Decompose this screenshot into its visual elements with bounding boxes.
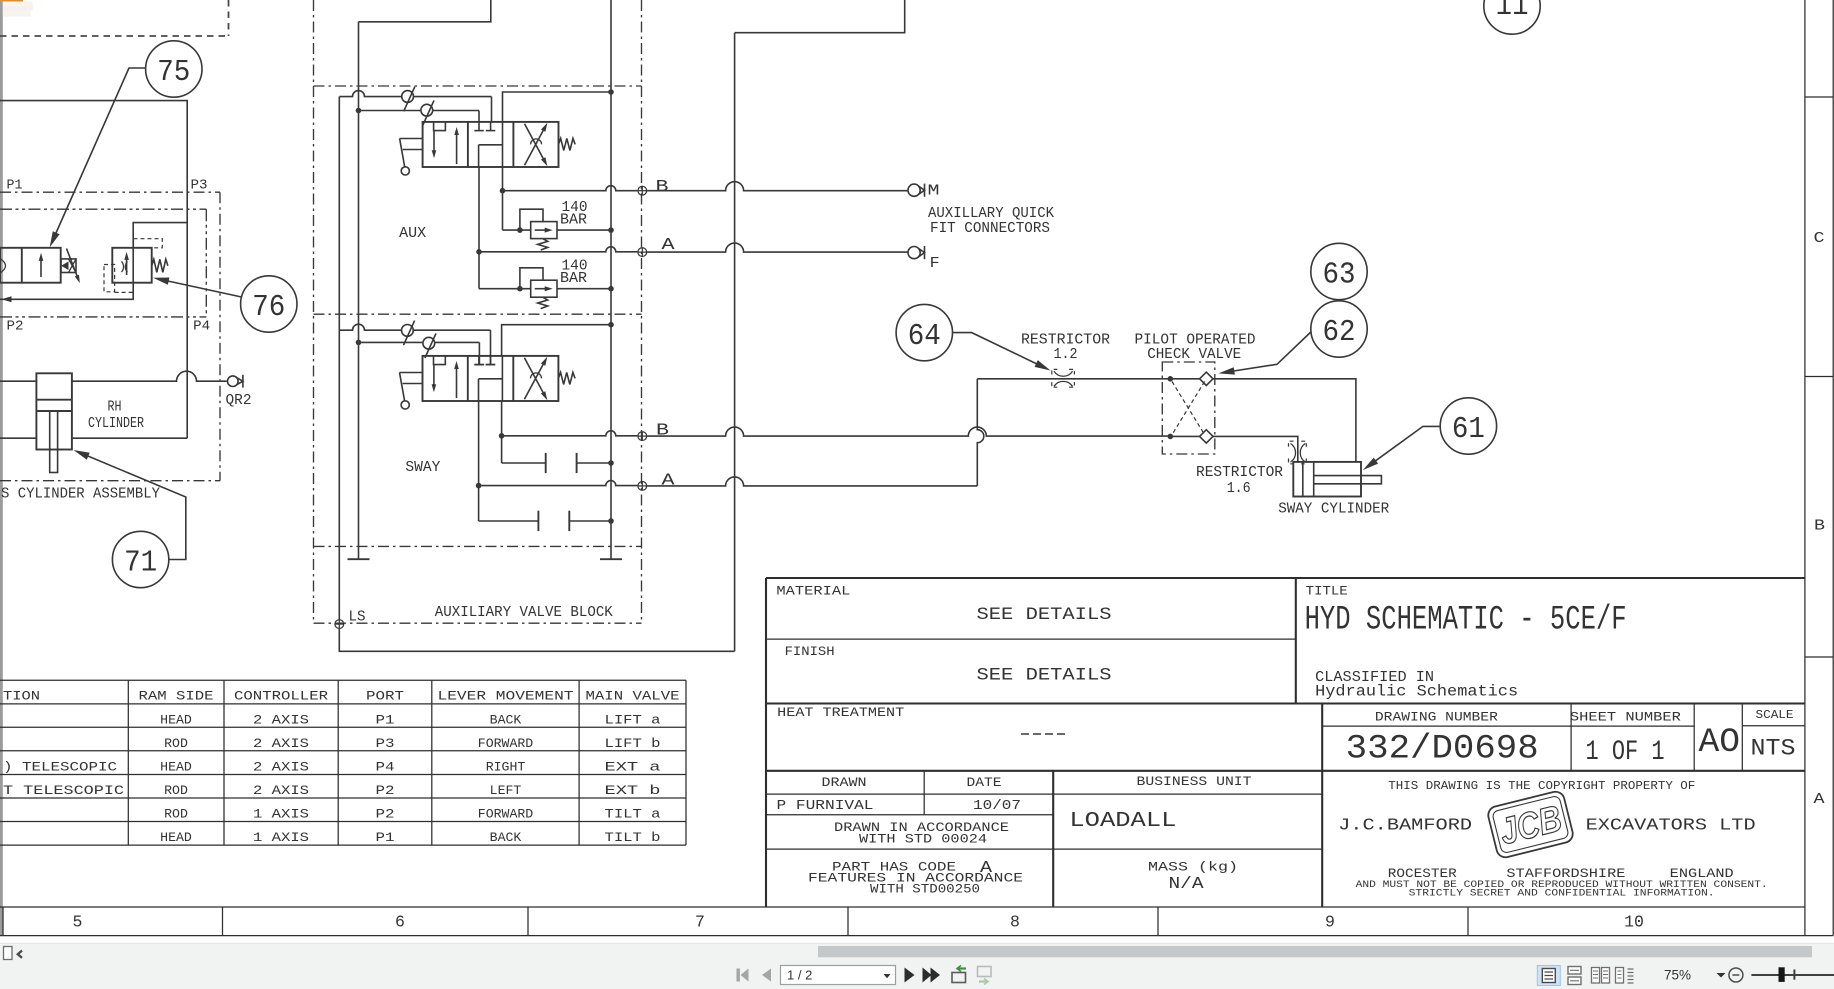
svg-text:TION: TION (3, 689, 40, 704)
solenoid valve V75 (0, 248, 80, 283)
svg-text:DRAWING NUMBER: DRAWING NUMBER (1375, 711, 1499, 725)
page thumbnail icon (4, 947, 13, 960)
svg-text:2 AXIS: 2 AXIS (253, 760, 309, 775)
svg-text:WITH STD00250: WITH STD00250 (870, 883, 980, 897)
svg-text:HEAD: HEAD (160, 713, 192, 728)
text HYD SCHEMATIC - 5CE/F (1305, 602, 1627, 640)
svg-text:SHEET NUMBER: SHEET NUMBER (1570, 711, 1682, 725)
svg-text:BACK: BACK (490, 713, 522, 728)
svg-text:61: 61 (1452, 412, 1485, 447)
svg-text:SEE DETAILS: SEE DETAILS (977, 666, 1112, 686)
svg-text:THIS DRAWING IS THE COPYRIGHT: THIS DRAWING IS THE COPYRIGHT PROPERTY O… (1388, 779, 1695, 793)
balloon 11 partial (1484, 0, 1540, 34)
svg-text:2 AXIS: 2 AXIS (253, 783, 309, 798)
svg-text:TILT b: TILT b (605, 830, 661, 845)
label AUXILIARY VALVE BLOCK (435, 605, 613, 621)
svg-text:LS: LS (349, 609, 366, 626)
svg-text:SWAY CYLINDER: SWAY CYLINDER (1278, 502, 1389, 518)
LS port connector (335, 620, 344, 629)
svg-text:10: 10 (1624, 913, 1644, 932)
faint ui remnant top-left (3, 2, 33, 7)
leader 76 (153, 278, 242, 298)
svg-text:) TELESCOPIC: ) TELESCOPIC (3, 760, 117, 775)
label A2 (662, 472, 676, 491)
label S CYLINDER ASSEMBLY (1, 487, 160, 503)
wire LS return bottom (339, 629, 734, 652)
label DRAWING NUMBER (1375, 711, 1499, 725)
RH cylinder (36, 373, 72, 472)
svg-text:P3: P3 (191, 178, 208, 194)
last page button (923, 968, 941, 983)
svg-text:AUXILIARY VALVE BLOCK: AUXILIARY VALVE BLOCK (435, 605, 613, 621)
leader 64 (952, 333, 1050, 371)
text NTS (1751, 736, 1796, 763)
svg-text:6: 6 (395, 913, 405, 932)
svg-text:1.6: 1.6 (1227, 481, 1251, 497)
wire check valve to cylinder rod end (1213, 379, 1356, 462)
browser orange sliver top-left (0, 0, 23, 2)
svg-text:BUSINESS UNIT: BUSINESS UNIT (1137, 775, 1253, 789)
label SCALE (1756, 708, 1794, 722)
svg-text:BAR: BAR (560, 213, 587, 229)
svg-text:P3: P3 (376, 736, 395, 751)
svg-text:P2: P2 (7, 319, 24, 335)
svg-text:QR2: QR2 (226, 393, 252, 409)
leader 75 (50, 68, 146, 247)
svg-text:1 AXIS: 1 AXIS (253, 807, 309, 822)
svg-text:HYD SCHEMATIC - 5CE/F: HYD SCHEMATIC - 5CE/F (1305, 602, 1627, 640)
wire SWAY port A riser (476, 401, 482, 521)
svg-text:T TELESCOPIC: T TELESCOPIC (3, 783, 124, 798)
svg-text:11: 11 (1496, 0, 1529, 24)
svg-text:B: B (656, 178, 669, 197)
svg-text:2 AXIS: 2 AXIS (253, 736, 309, 751)
left gray edge strip (0, 2, 3, 936)
prev page button (762, 969, 771, 982)
svg-text:RESTRICTOR: RESTRICTOR (1021, 332, 1110, 348)
wire SWAY pilot a (339, 324, 495, 364)
wire left box outline (0, 101, 187, 439)
label MASS kg (1148, 860, 1238, 874)
svg-text:FORWARD: FORWARD (478, 807, 533, 822)
balloon 71 (112, 531, 168, 587)
svg-text:ROD: ROD (164, 807, 188, 822)
port connector B2 (638, 432, 647, 441)
svg-text:AUX: AUX (399, 225, 426, 242)
valve block boundary dash-dot (314, 0, 642, 623)
svg-text:P2: P2 (376, 783, 395, 798)
text EXCAVATORS LTD (1586, 816, 1756, 835)
label SWAY (405, 459, 440, 476)
balloon 62 (1311, 301, 1367, 357)
pressure compensator V76 (104, 239, 168, 293)
wire compensator drain (0, 283, 133, 303)
svg-text:7: 7 (695, 913, 705, 932)
label RESTRICTOR 1.6 (1196, 465, 1283, 497)
svg-text:P4: P4 (193, 319, 210, 335)
svg-text:MAIN VALVE: MAIN VALVE (586, 689, 680, 704)
label P4 (193, 319, 210, 335)
svg-text:EXT b: EXT b (605, 783, 661, 798)
table rows text (3, 713, 661, 846)
balloon 61 (1440, 398, 1496, 454)
label SWAY CYLINDER (1278, 502, 1389, 518)
text 332/D0698 (1346, 730, 1539, 768)
svg-text:STRICTLY SECRET AND CONFIDENTI: STRICTLY SECRET AND CONFIDENTIAL INFORMA… (1409, 888, 1715, 899)
svg-text:1.2: 1.2 (1054, 347, 1078, 363)
label HEAT TREATMENT (777, 706, 905, 720)
svg-text:N/A: N/A (1169, 874, 1204, 893)
wire carry-over top elbow (735, 0, 905, 33)
svg-text:71: 71 (124, 546, 157, 581)
label RH CYLINDER (88, 399, 144, 433)
svg-text:62: 62 (1323, 315, 1356, 350)
wire P riser to AUX (338, 97, 340, 620)
port connector A2 (638, 482, 647, 491)
text SEE DETAILS finish (977, 666, 1112, 686)
svg-text:P1: P1 (376, 713, 395, 728)
svg-text:WITH STD 00024: WITH STD 00024 (859, 832, 987, 846)
directional valve SWAY (400, 356, 576, 409)
svg-text:J.C.BAMFORD: J.C.BAMFORD (1338, 816, 1472, 835)
wire SWAY A line (479, 481, 638, 486)
wire B2 into valve (1170, 435, 1199, 437)
restrictor 1.2 (1052, 369, 1075, 387)
leader 61 (1363, 426, 1440, 470)
wire carry-over vertical (734, 33, 736, 652)
svg-text:PILOT OPERATED: PILOT OPERATED (1135, 332, 1256, 348)
label M (928, 183, 940, 200)
label B1 (656, 178, 669, 197)
text 10/07 (973, 798, 1021, 814)
collapse chevron (18, 951, 22, 958)
connector M (908, 184, 925, 197)
text PART HAS CODE A (808, 859, 1023, 897)
text LOADALL (1069, 810, 1176, 833)
svg-text:RAM SIDE: RAM SIDE (139, 689, 214, 704)
svg-text:8: 8 (1010, 913, 1020, 932)
svg-text:DATE: DATE (967, 776, 1002, 790)
svg-text:MATERIAL: MATERIAL (776, 585, 850, 599)
svg-text:LEVER MOVEMENT: LEVER MOVEMENT (438, 689, 574, 704)
svg-text:B: B (656, 422, 669, 441)
text N/A (1169, 874, 1204, 893)
label F (930, 255, 940, 272)
svg-text:FINISH: FINISH (785, 645, 835, 659)
svg-text:S CYLINDER ASSEMBLY: S CYLINDER ASSEMBLY (1, 487, 160, 503)
text P FURNIVAL (777, 798, 874, 814)
check valve AUX b (421, 100, 434, 125)
svg-text:LIFT b: LIFT b (605, 736, 661, 751)
balloon 64 (896, 304, 952, 360)
wire AUX A line (479, 247, 637, 292)
label AUX (399, 225, 426, 242)
svg-text:63: 63 (1323, 258, 1356, 293)
label SHEET NUMBER (1570, 711, 1682, 725)
check valve AUX a (402, 87, 415, 112)
gap coupling B (502, 453, 614, 473)
port connector B1 (638, 186, 647, 195)
svg-text:HEAT TREATMENT: HEAT TREATMENT (777, 706, 905, 720)
text J.C.BAMFORD (1338, 816, 1472, 835)
wire pump line P (358, 22, 360, 559)
bottom border strip (0, 907, 1833, 936)
label TITLE (1306, 585, 1348, 599)
label A1 (662, 236, 676, 255)
label MATERIAL (776, 585, 850, 599)
svg-text:ROD: ROD (164, 736, 188, 751)
wire AUX tank link (503, 89, 614, 122)
svg-text:TITLE: TITLE (1306, 585, 1348, 599)
svg-text:LOADALL: LOADALL (1069, 810, 1176, 833)
wire SWAY port B riser (499, 401, 505, 463)
text copyright notice (1356, 879, 1768, 899)
wire AUX pilot b (356, 108, 479, 122)
svg-text:TILT a: TILT a (605, 807, 661, 822)
svg-text:LIFT a: LIFT a (605, 713, 661, 728)
connector F (908, 246, 925, 259)
wire A2 run (647, 477, 978, 486)
dashed boundary top-left (0, 0, 229, 36)
restrictor 1.6 (1289, 441, 1307, 464)
label BUSINESS UNIT (1137, 775, 1253, 789)
svg-text:SWAY: SWAY (405, 459, 440, 476)
svg-text:5: 5 (73, 913, 83, 932)
tank T1 (348, 558, 370, 560)
continuous facing layout icon (1616, 968, 1634, 984)
table header text (3, 689, 680, 704)
svg-text:A: A (662, 472, 676, 491)
svg-text:Hydraulic Schematics: Hydraulic Schematics (1315, 683, 1518, 701)
facing layout icon (1592, 968, 1610, 984)
svg-text:BAR: BAR (560, 271, 587, 287)
svg-text:BACK: BACK (490, 830, 522, 845)
wire cylinder rod line (0, 437, 187, 439)
svg-text:CONTROLLER: CONTROLLER (234, 689, 328, 704)
leader 62 (1219, 332, 1312, 375)
valve table frame (0, 680, 686, 845)
svg-text:P4: P4 (376, 760, 395, 775)
svg-text:HEAD: HEAD (160, 830, 192, 845)
wire compensator to box (133, 223, 187, 248)
svg-text:A: A (1814, 792, 1825, 808)
svg-text:SCALE: SCALE (1756, 708, 1794, 722)
next page button (905, 968, 915, 983)
zoom percent (1664, 967, 1691, 982)
svg-text:9: 9 (1325, 913, 1335, 932)
logo JCB (1486, 790, 1574, 859)
label DRAWN (822, 776, 867, 790)
label FINISH (785, 645, 835, 659)
right border strip (1805, 0, 1833, 936)
text A0 (1699, 724, 1741, 762)
zoom out button (1729, 968, 1743, 982)
svg-text:AO: AO (1699, 724, 1741, 762)
label P3 (191, 178, 208, 194)
wire AUX B line (503, 186, 638, 233)
wire tank line T (610, 0, 612, 559)
cylinder assembly boundary dash-dot (0, 192, 220, 481)
label PILOT OPERATED CHECK VALVE (1135, 332, 1256, 363)
wire AUX port B riser (500, 167, 506, 230)
text 1 OF 1 (1586, 737, 1665, 768)
label P1 (7, 178, 23, 194)
continuous layout icon (1568, 967, 1581, 985)
text SEE DETAILS material (977, 605, 1112, 625)
wire supply elbow top (359, 0, 491, 22)
svg-text:10/07: 10/07 (973, 798, 1021, 814)
svg-text:P2: P2 (376, 807, 395, 822)
heat treatment dashes (1021, 733, 1065, 735)
tank T2 (600, 558, 622, 560)
wire SWAY B line (502, 431, 638, 436)
svg-text:SEE DETAILS: SEE DETAILS (977, 605, 1112, 625)
svg-text:C: C (1814, 231, 1825, 247)
wire SWAY tank link (502, 322, 614, 356)
relief valve 140BAR lower (479, 259, 614, 309)
bottom border numbers (73, 913, 1644, 932)
inner compensator boundary (0, 209, 206, 317)
right border letters (1814, 231, 1826, 808)
svg-text:P1: P1 (376, 830, 395, 845)
svg-text:RH: RH (108, 399, 122, 416)
text DRAWN IN ACCORDANCE (834, 821, 1009, 846)
svg-text:64: 64 (908, 319, 941, 354)
quick release QR2 (228, 375, 243, 388)
relief valve 140BAR upper (503, 200, 614, 250)
wire SWAY pilot b (356, 340, 485, 365)
label P2 (7, 319, 24, 335)
label CLASSIFIED IN (1315, 669, 1434, 686)
first page button (737, 969, 749, 982)
svg-text:CHECK VALVE: CHECK VALVE (1147, 347, 1241, 363)
wire AUX pilot a (339, 91, 491, 122)
svg-text:332/D0698: 332/D0698 (1346, 730, 1539, 768)
page number box (781, 966, 896, 985)
balloon 63 (1311, 243, 1367, 299)
text ROCESTER STAFFORDSHIRE ENGLAND (1388, 867, 1734, 881)
svg-text:75: 75 (157, 55, 190, 90)
wire A1 to F (647, 243, 908, 252)
svg-text:EXCAVATORS LTD: EXCAVATORS LTD (1586, 816, 1756, 835)
gap coupling A (479, 511, 614, 531)
sway cylinder (1293, 462, 1381, 497)
svg-text:AUXILLARY QUICK: AUXILLARY QUICK (928, 206, 1054, 222)
check valve SWAY a (402, 321, 415, 346)
view history back icon (952, 966, 966, 983)
viewer bottom panel (0, 943, 1834, 989)
label B2 (656, 422, 669, 441)
wire A2 upper run (977, 376, 1199, 382)
svg-text:CYLINDER: CYLINDER (88, 415, 144, 432)
pilot operated check valve (1162, 362, 1215, 454)
svg-text:FORWARD: FORWARD (478, 736, 533, 751)
svg-text:RESTRICTOR: RESTRICTOR (1196, 465, 1283, 481)
svg-text:PORT: PORT (366, 689, 404, 704)
horizontal scrollbar thumb (818, 946, 1812, 957)
view history fwd icon (978, 967, 992, 985)
svg-text:RIGHT: RIGHT (486, 760, 526, 775)
label DATE (967, 776, 1002, 790)
svg-text:EXT a: EXT a (605, 760, 661, 775)
svg-text:NTS: NTS (1751, 736, 1796, 763)
svg-text:1 AXIS: 1 AXIS (253, 830, 309, 845)
wire B2 to check valve (647, 427, 1173, 439)
label LS (349, 609, 366, 626)
label AUXILLARY QUICK FIT CONNECTORS (928, 206, 1054, 237)
wire AUX port A riser (476, 167, 482, 289)
svg-text:DRAWN: DRAWN (822, 776, 867, 790)
svg-text:P1: P1 (7, 178, 23, 194)
balloon 75 (146, 41, 202, 97)
svg-text:FIT CONNECTORS: FIT CONNECTORS (930, 221, 1050, 237)
title block frame (766, 578, 1805, 907)
svg-text:B: B (1814, 519, 1825, 535)
svg-text:M: M (928, 183, 940, 200)
svg-text:ROD: ROD (164, 783, 188, 798)
svg-text:F: F (930, 255, 940, 272)
svg-text:75%: 75% (1664, 967, 1691, 982)
zoom dropdown caret (1717, 973, 1726, 978)
label RESTRICTOR 1.2 (1021, 332, 1110, 363)
svg-text:1 / 2: 1 / 2 (787, 967, 812, 982)
single page layout icon active (1537, 966, 1560, 986)
leader 71 (74, 450, 186, 560)
svg-text:HEAD: HEAD (160, 760, 192, 775)
directional valve AUX (400, 122, 576, 175)
svg-text:2 AXIS: 2 AXIS (253, 713, 309, 728)
wire check valve to restrictor 1.6 (1213, 436, 1298, 462)
port connector A1 (638, 248, 647, 257)
check valve SWAY b (423, 333, 436, 358)
text THIS DRAWING IS THE COPYRIGHT PROPERTY OF (1388, 779, 1695, 793)
wire A2 riser (977, 379, 984, 486)
label QR2 (226, 393, 252, 409)
wire B1 to M (647, 182, 908, 191)
svg-text:1 OF 1: 1 OF 1 (1586, 737, 1665, 768)
zoom slider (1751, 967, 1834, 982)
svg-text:LEFT: LEFT (490, 783, 522, 798)
text Hydraulic Schematics (1315, 683, 1518, 701)
svg-text:MASS (kg): MASS (kg) (1148, 860, 1238, 874)
svg-text:P FURNIVAL: P FURNIVAL (777, 798, 874, 814)
svg-text:76: 76 (252, 290, 285, 325)
balloon 76 (241, 276, 297, 332)
wire cylinder head line (0, 371, 227, 381)
